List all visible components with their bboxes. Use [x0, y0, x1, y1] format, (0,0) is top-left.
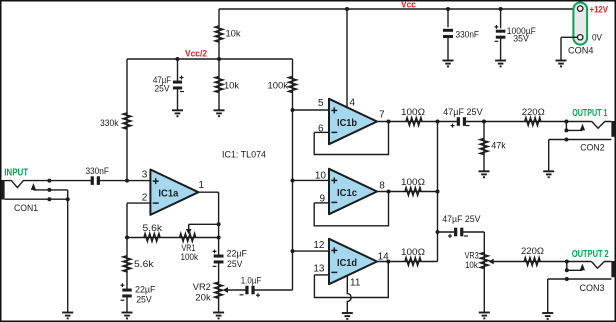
svg-text:0V: 0V — [592, 33, 602, 44]
svg-text:330nF: 330nF — [85, 166, 109, 177]
svg-text:35V: 35V — [513, 34, 529, 45]
svg-text:4: 4 — [350, 98, 356, 109]
svg-text:47µF 25V: 47µF 25V — [442, 214, 481, 225]
svg-text:12: 12 — [313, 240, 325, 251]
svg-text:7: 7 — [379, 109, 385, 120]
svg-text:OUTPUT 2: OUTPUT 2 — [572, 249, 609, 260]
svg-text:CON3: CON3 — [580, 283, 605, 294]
svg-text:Vcc/2: Vcc/2 — [185, 49, 207, 60]
svg-text:220Ω: 220Ω — [522, 107, 545, 118]
svg-text:IC1b: IC1b — [337, 117, 357, 129]
svg-text:220Ω: 220Ω — [521, 246, 544, 257]
svg-text:5: 5 — [318, 98, 324, 109]
svg-text:1.0µF: 1.0µF — [241, 275, 262, 286]
svg-text:22µF: 22µF — [227, 248, 248, 259]
svg-text:330k: 330k — [100, 118, 119, 129]
svg-text:8: 8 — [379, 180, 385, 191]
svg-text:47µF 25V: 47µF 25V — [443, 107, 483, 118]
svg-text:3: 3 — [142, 169, 148, 180]
svg-text:10k: 10k — [226, 29, 241, 40]
svg-text:5.6k: 5.6k — [134, 259, 154, 270]
svg-text:14: 14 — [378, 252, 390, 263]
svg-text:25V: 25V — [155, 84, 171, 95]
svg-text:10: 10 — [315, 170, 327, 181]
svg-text:5.6k: 5.6k — [143, 223, 163, 234]
svg-text:100Ω: 100Ω — [401, 247, 425, 258]
svg-text:IC1d: IC1d — [337, 257, 357, 269]
svg-text:11: 11 — [350, 277, 361, 288]
svg-text:25V: 25V — [227, 259, 243, 270]
svg-text:INPUT: INPUT — [4, 168, 28, 179]
svg-text:13: 13 — [313, 263, 325, 274]
svg-text:CON2: CON2 — [580, 143, 605, 154]
svg-text:10k: 10k — [465, 260, 478, 271]
svg-text:IC1: TL074: IC1: TL074 — [222, 149, 267, 160]
svg-text:100Ω: 100Ω — [401, 177, 425, 188]
svg-text:+12V: +12V — [590, 5, 609, 16]
svg-text:100k: 100k — [181, 252, 199, 263]
svg-text:Vcc: Vcc — [401, 0, 416, 11]
svg-text:25V: 25V — [136, 294, 152, 305]
svg-text:IC1c: IC1c — [337, 187, 357, 199]
svg-text:CON4: CON4 — [568, 45, 594, 56]
svg-text:330nF: 330nF — [456, 29, 480, 40]
svg-text:2: 2 — [142, 192, 148, 203]
svg-text:1: 1 — [199, 180, 205, 191]
svg-text:100k: 100k — [268, 81, 289, 92]
svg-text:OUTPUT 1: OUTPUT 1 — [572, 108, 608, 119]
svg-text:100Ω: 100Ω — [401, 107, 425, 118]
svg-text:CON1: CON1 — [14, 203, 38, 214]
svg-text:IC1a: IC1a — [158, 188, 178, 200]
svg-text:47k: 47k — [491, 140, 506, 151]
svg-text:10k: 10k — [224, 81, 239, 92]
svg-text:20k: 20k — [195, 292, 211, 303]
